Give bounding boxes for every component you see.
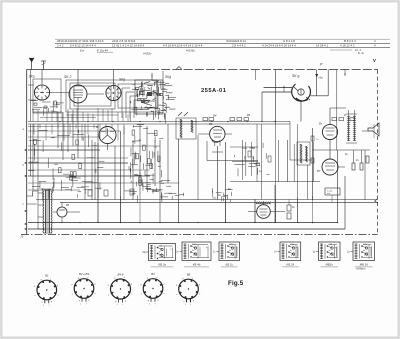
- svg-text:B4: B4: [151, 272, 155, 276]
- svg-text:g: g: [57, 285, 58, 287]
- svg-text:g: g: [41, 279, 42, 281]
- svg-text:em: em: [327, 193, 330, 195]
- svg-text:4u: 4u: [159, 252, 161, 254]
- svg-text:g: g: [51, 301, 52, 303]
- svg-text:SKa: SKa: [29, 75, 35, 79]
- svg-text:g: g: [94, 283, 95, 285]
- svg-text:SKg: SKg: [165, 75, 171, 79]
- svg-text:4 14 24 4 14 4 4 24 14 4 4: 4 14 24 4 14 4 4 24 14 4 4: [262, 43, 296, 47]
- svg-text:Bf: Bf: [96, 125, 99, 129]
- svg-text:4u: 4u: [329, 250, 331, 252]
- svg-text:C.um: C.um: [327, 190, 332, 192]
- svg-text:g: g: [71, 284, 72, 286]
- svg-text:g: g: [108, 285, 109, 287]
- svg-text:V: V: [373, 58, 376, 63]
- svg-text:4u: 4u: [363, 250, 365, 252]
- svg-text:g: g: [140, 284, 141, 286]
- svg-text:4u: 4u: [229, 250, 231, 252]
- svg-text:g: g: [125, 300, 126, 302]
- svg-text:12 41 1 4 2 4 12 14 8 8 4: 12 41 1 4 2 4 12 14 8 8 4: [112, 43, 145, 47]
- svg-text:4 18 12 4 2: 4 18 12 4 2: [340, 43, 355, 47]
- svg-text:g: g: [147, 277, 148, 279]
- svg-text:g: g: [183, 301, 184, 303]
- svg-text:g: g: [42, 302, 43, 304]
- svg-text:g: g: [193, 300, 194, 302]
- svg-text:B8: B8: [187, 273, 191, 277]
- svg-text:B4-6: B4-6: [118, 272, 124, 276]
- svg-text:MB1h: MB1h: [326, 263, 334, 267]
- svg-text:g: g: [88, 300, 89, 302]
- svg-text:g: g: [79, 300, 80, 302]
- svg-text:g: g: [157, 300, 158, 302]
- svg-text:255A-01: 255A-01: [201, 88, 227, 94]
- svg-text:g: g: [131, 284, 132, 286]
- svg-text:SK g: SK g: [292, 74, 299, 78]
- svg-text:g: g: [176, 285, 177, 287]
- svg-text:KB 2c: KB 2c: [226, 263, 234, 267]
- svg-text:MB 16: MB 16: [360, 263, 369, 267]
- svg-text:B4: B4: [247, 113, 251, 117]
- svg-text:F. Eq 44: F. Eq 44: [97, 48, 108, 52]
- svg-text:Fig.5: Fig.5: [228, 280, 244, 287]
- svg-text:4u: 4u: [192, 250, 194, 252]
- svg-text:SK 2: SK 2: [64, 75, 71, 79]
- svg-text:B7: B7: [317, 169, 321, 173]
- svg-text:5 4 8 12 13 14 4 4 4: 5 4 8 12 13 14 4 4 4: [70, 43, 96, 47]
- svg-text:B. 4L: B. 4L: [358, 51, 365, 55]
- svg-text:g: g: [114, 278, 115, 280]
- svg-text:SKg: SKg: [119, 78, 125, 82]
- svg-text:44(3(b): 44(3(b): [143, 52, 151, 56]
- svg-text:4 4 14 8 4 12 8 4 4 14 2 12 4: 4 4 14 8 4 12 8 4 4 14 2 12 4 4: [163, 43, 203, 47]
- svg-text:10. 4.: 10. 4.: [355, 48, 362, 52]
- svg-text:g: g: [34, 286, 35, 288]
- svg-text:B6: B6: [209, 122, 213, 126]
- svg-text:KB 2A: KB 2A: [286, 263, 294, 267]
- svg-text:A/Mazur: A/Mazur: [355, 267, 366, 271]
- svg-text:KB 4b: KB 4b: [193, 263, 201, 267]
- svg-text:14 24 4 1: 14 24 4 1: [316, 43, 328, 47]
- svg-text:+Sa: +Sa: [318, 76, 323, 80]
- svg-text:B1: B1: [45, 274, 49, 278]
- svg-text:4u: 4u: [290, 250, 292, 252]
- svg-text:KB 2a: KB 2a: [158, 263, 166, 267]
- svg-text:B4: B4: [213, 114, 217, 118]
- svg-text:g: g: [163, 283, 164, 285]
- svg-text:B2 e B3: B2 e B3: [79, 272, 89, 276]
- svg-text:g: g: [115, 301, 116, 303]
- svg-text:Em: Em: [80, 49, 85, 53]
- svg-text:2 8 4 4 4 2: 2 8 4 4 4 2: [232, 43, 246, 47]
- svg-text:g: g: [182, 278, 183, 280]
- svg-text:g: g: [148, 300, 149, 302]
- svg-text:g: g: [78, 277, 79, 279]
- svg-text:2 4 2: 2 4 2: [57, 43, 64, 47]
- svg-text:g: g: [199, 284, 200, 286]
- svg-text:4413(b): 4413(b): [186, 49, 195, 53]
